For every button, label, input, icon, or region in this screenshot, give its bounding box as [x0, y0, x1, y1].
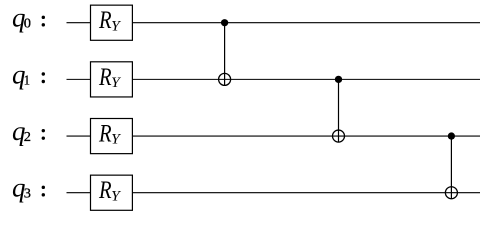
wire q2 — [67, 135, 481, 137]
CNOT target CX1 on q1 — [219, 73, 231, 85]
control dot CX2 on q1 — [335, 76, 342, 83]
control dot CX1 on q0 — [221, 19, 228, 26]
wire q0 — [67, 22, 481, 24]
wire q3 — [67, 192, 481, 194]
svg-text:R: R — [98, 64, 111, 91]
CNOT target CX2 on q2 — [333, 130, 345, 142]
CNOT target CX3 on q3 — [445, 187, 457, 199]
wire q1 — [67, 78, 481, 80]
wire CX1 vertical — [224, 23, 226, 86]
svg-text:R: R — [98, 121, 111, 148]
control dot CX3 on q2 — [448, 132, 455, 139]
gate RY on q1 — [91, 62, 133, 97]
wire CX3 vertical — [450, 136, 452, 199]
svg-text:1: 1 — [24, 72, 30, 87]
gate RY on q3 — [91, 175, 133, 210]
node q0 label — [12, 3, 45, 33]
node q2 label — [12, 116, 45, 146]
svg-text:0: 0 — [24, 16, 31, 31]
node q1 label — [12, 59, 45, 89]
svg-text:2: 2 — [24, 129, 31, 144]
node q3 label — [12, 173, 45, 203]
wire CX2 vertical — [338, 79, 340, 142]
svg-text:R: R — [98, 177, 111, 204]
gate RY on q0 — [91, 5, 133, 40]
svg-text:3: 3 — [24, 186, 31, 201]
gate RY on q2 — [91, 119, 133, 154]
svg-text:R: R — [98, 7, 111, 34]
